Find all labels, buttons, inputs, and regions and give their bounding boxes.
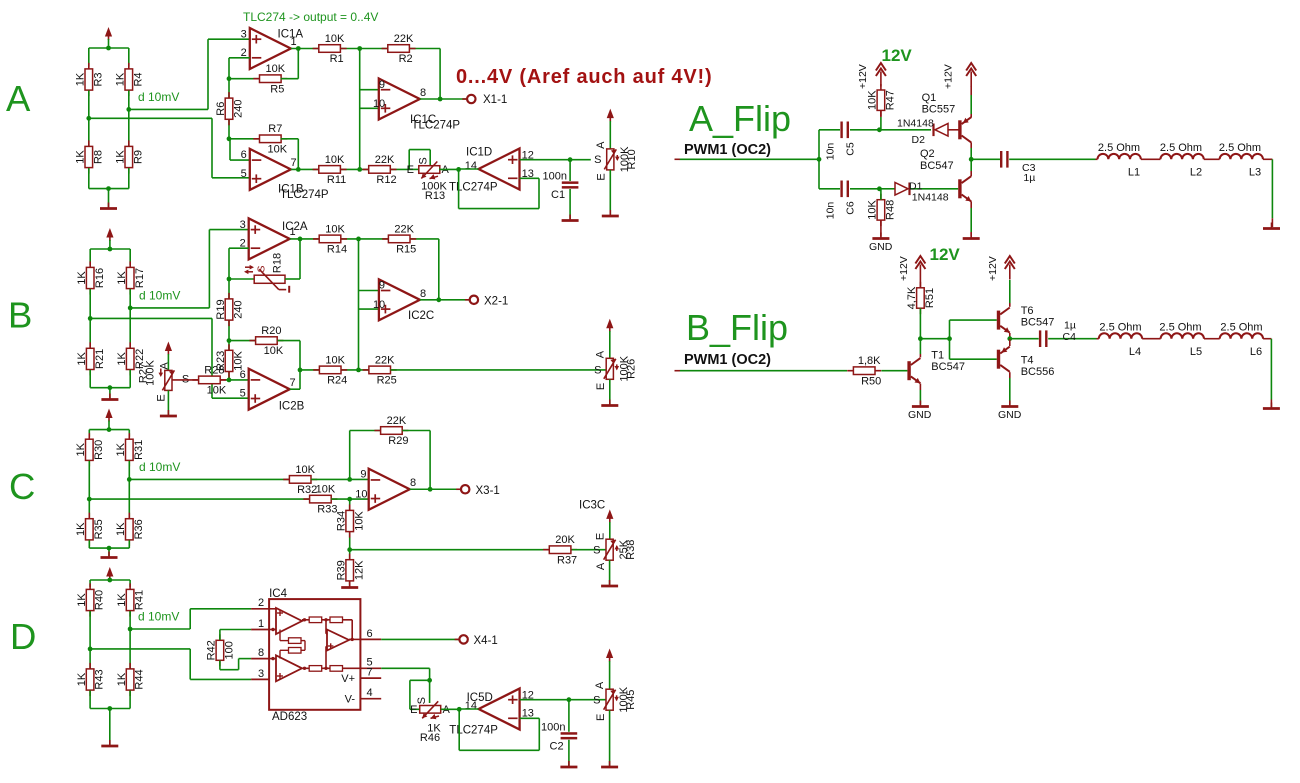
svg-text:E: E — [595, 383, 607, 390]
svg-text:GND: GND — [869, 241, 893, 253]
svg-text:R19: R19 — [215, 299, 227, 319]
svg-text:R35: R35 — [93, 519, 105, 539]
svg-text:2.5 Ohm: 2.5 Ohm — [1159, 321, 1201, 333]
svg-text:R10: R10 — [626, 149, 638, 169]
svg-text:10K: 10K — [867, 199, 879, 219]
svg-text:A: A — [594, 681, 606, 689]
svg-text:E: E — [595, 714, 607, 721]
svg-text:R18: R18 — [272, 253, 284, 273]
svg-text:IC1A: IC1A — [278, 29, 304, 41]
svg-text:IC2B: IC2B — [279, 400, 305, 412]
svg-text:L2: L2 — [1190, 166, 1202, 178]
svg-text:V+: V+ — [341, 673, 355, 685]
svg-text:TLC274P: TLC274P — [449, 181, 498, 193]
svg-text:R15: R15 — [396, 244, 416, 256]
svg-text:10n: 10n — [825, 143, 837, 161]
svg-text:C4: C4 — [1063, 331, 1077, 343]
svg-text:1µ: 1µ — [1064, 319, 1076, 331]
svg-text:22K: 22K — [394, 223, 414, 235]
svg-text:1: 1 — [258, 618, 264, 630]
svg-text:X3-1: X3-1 — [476, 485, 500, 497]
svg-text:3: 3 — [240, 219, 246, 231]
svg-text:R20: R20 — [261, 325, 281, 337]
svg-text:d 10mV: d 10mV — [138, 610, 179, 624]
svg-text:14: 14 — [465, 160, 477, 172]
svg-text:R21: R21 — [94, 349, 106, 369]
svg-text:C5: C5 — [845, 142, 857, 156]
svg-text:A: A — [6, 78, 31, 119]
svg-text:R17: R17 — [134, 268, 146, 288]
svg-text:R1: R1 — [330, 53, 344, 65]
svg-text:10K: 10K — [266, 63, 286, 75]
svg-text:A: A — [159, 362, 171, 370]
svg-text:R11: R11 — [327, 174, 346, 186]
svg-text:3: 3 — [258, 668, 264, 680]
svg-text:10n: 10n — [825, 202, 837, 220]
svg-text:7: 7 — [290, 377, 296, 389]
svg-text:R41: R41 — [134, 590, 146, 610]
svg-text:X1-1: X1-1 — [483, 94, 507, 106]
svg-text:T6: T6 — [1021, 305, 1034, 317]
svg-text:1K: 1K — [75, 442, 87, 456]
svg-text:E: E — [594, 533, 606, 540]
svg-text:R44: R44 — [134, 669, 146, 689]
svg-text:R48: R48 — [885, 200, 897, 220]
svg-text:12V: 12V — [882, 46, 913, 65]
svg-text:9: 9 — [379, 79, 385, 91]
svg-text:X2-1: X2-1 — [484, 295, 508, 307]
svg-text:R30: R30 — [93, 440, 105, 460]
svg-text:1K: 1K — [76, 271, 88, 285]
svg-text:4: 4 — [367, 687, 373, 699]
svg-text:10K: 10K — [867, 90, 879, 110]
svg-text:R50: R50 — [861, 375, 881, 387]
svg-text:1K: 1K — [115, 442, 127, 456]
svg-text:R2: R2 — [399, 53, 413, 65]
svg-text:R28: R28 — [204, 364, 224, 376]
svg-text:4,7K: 4,7K — [906, 286, 918, 309]
svg-text:8: 8 — [420, 288, 426, 300]
svg-text:R32: R32 — [297, 484, 317, 496]
svg-text:10K: 10K — [325, 154, 345, 166]
svg-text:5: 5 — [240, 388, 246, 400]
svg-text:E: E — [410, 704, 417, 716]
svg-text:2.5 Ohm: 2.5 Ohm — [1160, 142, 1202, 154]
svg-text:B: B — [8, 295, 32, 336]
svg-text:100K: 100K — [145, 359, 157, 385]
svg-text:C2: C2 — [550, 740, 564, 752]
svg-text:S: S — [594, 154, 601, 166]
svg-text:9: 9 — [360, 469, 366, 481]
svg-text:Q2: Q2 — [920, 148, 935, 160]
svg-text:1K: 1K — [116, 271, 128, 285]
svg-text:R39: R39 — [336, 560, 348, 580]
svg-text:S: S — [594, 365, 601, 377]
svg-text:IC3C: IC3C — [579, 500, 605, 512]
svg-text:2.5 Ohm: 2.5 Ohm — [1098, 142, 1140, 154]
svg-text:R12: R12 — [376, 174, 396, 186]
svg-text:R16: R16 — [94, 268, 106, 288]
svg-text:6: 6 — [241, 149, 247, 161]
svg-text:10K: 10K — [353, 511, 365, 531]
svg-text:R45: R45 — [625, 690, 637, 710]
svg-text:20K: 20K — [555, 534, 575, 546]
svg-text:1K: 1K — [76, 593, 88, 607]
svg-text:S: S — [418, 157, 430, 164]
svg-text:R6: R6 — [215, 102, 227, 116]
svg-text:R24: R24 — [327, 375, 347, 387]
svg-text:PWM1 (OC2): PWM1 (OC2) — [684, 352, 771, 368]
svg-text:1N4148: 1N4148 — [912, 192, 949, 204]
svg-text:+12V: +12V — [987, 256, 999, 281]
svg-text:8: 8 — [258, 647, 264, 659]
svg-text:R13: R13 — [425, 190, 445, 202]
svg-text:1K: 1K — [76, 672, 88, 686]
svg-text:R46: R46 — [420, 732, 440, 744]
svg-text:10: 10 — [373, 98, 385, 110]
svg-text:+12V: +12V — [857, 64, 869, 89]
svg-text:BC547: BC547 — [931, 361, 965, 373]
svg-text:E: E — [596, 173, 608, 180]
svg-text:T4: T4 — [1021, 354, 1034, 366]
svg-text:R43: R43 — [94, 669, 106, 689]
svg-text:IC1D: IC1D — [466, 146, 492, 158]
svg-text:BC556: BC556 — [1021, 366, 1055, 378]
svg-text:100n: 100n — [541, 721, 565, 733]
svg-text:S: S — [256, 265, 268, 272]
svg-text:IC2A: IC2A — [282, 221, 308, 233]
svg-text:3: 3 — [241, 28, 247, 40]
svg-text:R8: R8 — [92, 150, 104, 164]
svg-text:22K: 22K — [387, 415, 407, 427]
svg-text:7: 7 — [367, 667, 373, 679]
svg-text:10K: 10K — [207, 385, 227, 397]
svg-text:6: 6 — [240, 369, 246, 381]
svg-text:B_Flip: B_Flip — [686, 307, 788, 348]
svg-text:S: S — [416, 697, 428, 704]
svg-text:E: E — [407, 164, 414, 176]
svg-text:1K: 1K — [115, 150, 127, 164]
svg-text:10: 10 — [373, 299, 385, 311]
svg-text:L5: L5 — [1190, 346, 1202, 358]
svg-text:R14: R14 — [327, 244, 347, 256]
svg-text:D: D — [10, 616, 36, 657]
svg-text:d 10mV: d 10mV — [138, 90, 179, 104]
svg-text:7: 7 — [291, 157, 297, 169]
svg-text:1N4148: 1N4148 — [897, 118, 934, 130]
svg-text:GND: GND — [998, 409, 1022, 421]
svg-text:TLC274P: TLC274P — [280, 189, 329, 201]
svg-text:10K: 10K — [295, 464, 315, 476]
svg-text:1K: 1K — [115, 72, 127, 86]
svg-text:PWM1 (OC2): PWM1 (OC2) — [684, 142, 771, 158]
svg-text:R33: R33 — [317, 504, 337, 516]
svg-text:BC547: BC547 — [920, 160, 954, 172]
svg-text:A: A — [594, 350, 606, 358]
svg-text:R7: R7 — [268, 123, 282, 135]
svg-text:240: 240 — [233, 100, 245, 118]
svg-text:R40: R40 — [94, 590, 106, 610]
svg-text:R5: R5 — [270, 83, 284, 95]
svg-text:10: 10 — [355, 488, 367, 500]
svg-text:100n: 100n — [543, 171, 567, 183]
svg-text:100: 100 — [224, 641, 236, 659]
svg-text:R25: R25 — [377, 375, 397, 387]
svg-text:10K: 10K — [325, 33, 345, 45]
svg-text:9: 9 — [379, 280, 385, 292]
svg-text:2.5 Ohm: 2.5 Ohm — [1219, 142, 1261, 154]
svg-text:8: 8 — [420, 87, 426, 99]
svg-text:22K: 22K — [375, 354, 395, 366]
svg-text:R29: R29 — [388, 435, 408, 447]
svg-text:TLC274 -> output = 0..4V: TLC274 -> output = 0..4V — [243, 10, 378, 24]
svg-text:1K: 1K — [75, 72, 87, 86]
svg-text:A: A — [595, 141, 607, 149]
svg-text:0...4V (Aref auch auf 4V!): 0...4V (Aref auch auf 4V!) — [456, 66, 712, 88]
svg-text:12V: 12V — [930, 245, 961, 264]
svg-text:+12V: +12V — [943, 64, 955, 89]
svg-text:10K: 10K — [264, 345, 284, 357]
svg-text:R37: R37 — [557, 554, 577, 566]
svg-text:R47: R47 — [885, 90, 897, 110]
svg-text:12K: 12K — [353, 560, 365, 580]
svg-text:R3: R3 — [92, 72, 104, 86]
svg-text:L4: L4 — [1129, 346, 1141, 358]
svg-text:TLC274P: TLC274P — [412, 119, 461, 131]
svg-text:10K: 10K — [316, 484, 336, 496]
svg-text:2.5 Ohm: 2.5 Ohm — [1099, 321, 1141, 333]
svg-text:C: C — [9, 466, 35, 507]
svg-text:1K: 1K — [116, 593, 128, 607]
svg-text:d 10mV: d 10mV — [139, 460, 180, 474]
svg-text:10K: 10K — [233, 350, 245, 370]
svg-text:d 10mV: d 10mV — [139, 288, 180, 302]
svg-text:BC557: BC557 — [922, 104, 956, 116]
svg-text:R51: R51 — [924, 288, 936, 308]
svg-text:IC5D: IC5D — [467, 692, 493, 704]
svg-text:240: 240 — [233, 300, 245, 318]
svg-text:D1: D1 — [909, 181, 923, 193]
svg-text:GND: GND — [908, 409, 932, 421]
svg-text:1K: 1K — [76, 352, 88, 366]
svg-text:R31: R31 — [133, 440, 145, 460]
svg-text:10K: 10K — [325, 223, 345, 235]
svg-text:A: A — [595, 562, 607, 570]
svg-text:V-: V- — [345, 694, 356, 706]
svg-text:C1: C1 — [551, 189, 565, 201]
svg-text:1K: 1K — [116, 352, 128, 366]
svg-text:L6: L6 — [1250, 346, 1262, 358]
svg-text:R4: R4 — [132, 72, 144, 86]
svg-text:10K: 10K — [268, 143, 288, 155]
svg-text:8: 8 — [410, 477, 416, 489]
svg-text:1K: 1K — [116, 672, 128, 686]
svg-text:Q1: Q1 — [922, 92, 937, 104]
svg-text:R36: R36 — [133, 519, 145, 539]
svg-text:T1: T1 — [931, 349, 944, 361]
svg-text:X4-1: X4-1 — [474, 635, 498, 647]
svg-text:IC2C: IC2C — [408, 310, 434, 322]
svg-text:1µ: 1µ — [1023, 172, 1035, 184]
svg-text:A_Flip: A_Flip — [689, 98, 791, 139]
svg-text:1K: 1K — [75, 522, 87, 536]
svg-text:IC4: IC4 — [269, 588, 288, 600]
svg-text:10K: 10K — [325, 354, 345, 366]
svg-text:6: 6 — [367, 628, 373, 640]
svg-text:22K: 22K — [394, 33, 414, 45]
svg-text:R26: R26 — [625, 359, 637, 379]
svg-text:TLC274P: TLC274P — [449, 724, 498, 736]
svg-text:E: E — [156, 394, 168, 401]
svg-text:1,8K: 1,8K — [858, 355, 881, 367]
svg-text:L1: L1 — [1128, 166, 1140, 178]
svg-text:R38: R38 — [625, 540, 637, 560]
svg-text:R34: R34 — [336, 511, 348, 531]
svg-text:BC547: BC547 — [1021, 317, 1055, 329]
svg-text:R42: R42 — [206, 640, 218, 660]
svg-text:1K: 1K — [75, 150, 87, 164]
svg-text:2.5 Ohm: 2.5 Ohm — [1220, 321, 1262, 333]
svg-text:R9: R9 — [132, 150, 144, 164]
svg-text:5: 5 — [241, 168, 247, 180]
svg-text:AD623: AD623 — [272, 711, 307, 723]
svg-text:2: 2 — [258, 597, 264, 609]
svg-text:1K: 1K — [115, 522, 127, 536]
svg-text:S: S — [593, 694, 600, 706]
svg-text:L3: L3 — [1249, 166, 1261, 178]
svg-text:D2: D2 — [912, 134, 926, 146]
svg-text:S: S — [593, 544, 600, 556]
svg-text:22K: 22K — [375, 154, 395, 166]
svg-text:+12V: +12V — [898, 256, 910, 281]
svg-text:C6: C6 — [845, 201, 857, 215]
